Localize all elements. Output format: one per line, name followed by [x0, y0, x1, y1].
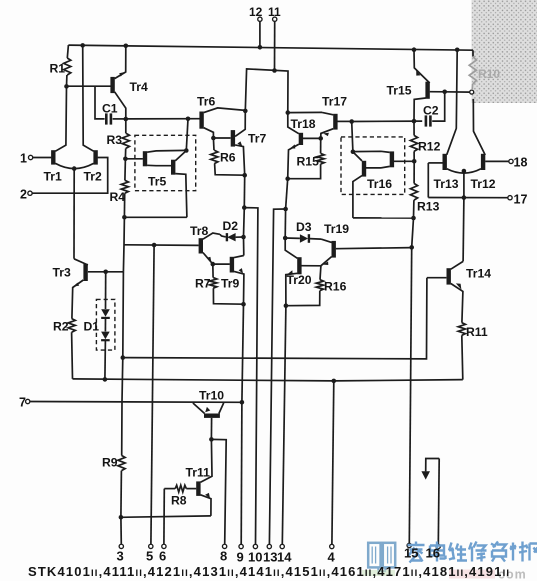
svg-text:Tr4: Tr4 [130, 80, 149, 94]
svg-text:7: 7 [19, 396, 26, 410]
wire pin 15 column [409, 247, 411, 543]
wire pin 9 column [242, 304, 244, 402]
junction pin7 line end [240, 400, 245, 405]
transistor Tr2 [93, 150, 97, 164]
svg-text:3: 3 [117, 549, 124, 564]
transistor Tr4 [110, 77, 114, 93]
svg-text:R7: R7 [195, 277, 211, 291]
transistor Tr19 [332, 241, 336, 258]
pin 7 terminal [26, 399, 30, 403]
pin 3 terminal [119, 544, 123, 548]
svg-text:Tr13: Tr13 [434, 177, 459, 191]
svg-text:R15: R15 [297, 155, 320, 169]
svg-text:C2: C2 [423, 104, 439, 118]
wire R4 bottom to Tr5 emitter [124, 216, 186, 218]
junction output / pin17 line [462, 195, 467, 200]
pin 10 terminal [253, 544, 257, 548]
watermark gray halftone block top-right [472, 0, 537, 103]
resistor R16 [319, 266, 322, 280]
wire V+ top bus [68, 45, 473, 50]
svg-text:14: 14 [277, 550, 292, 565]
transistor Tr1 [51, 150, 55, 164]
pin 8 terminal [222, 544, 226, 548]
svg-text:Tr16: Tr16 [367, 177, 392, 191]
wire left bias column (to pin 3) [123, 217, 124, 271]
watermark text (stylised) [408, 542, 537, 563]
wire pin 12 lead [259, 21, 261, 46]
svg-text:R16: R16 [324, 280, 347, 294]
node R1 bottom / Tr4 base [64, 84, 69, 89]
svg-text:D2: D2 [223, 219, 239, 233]
svg-text:16: 16 [426, 546, 440, 561]
junction Tr7 base [211, 136, 216, 141]
diode D3 [285, 237, 300, 239]
pin 13 terminal [267, 544, 271, 548]
junction pin4 branch [332, 379, 337, 384]
svg-text:R13: R13 [417, 200, 440, 214]
svg-text:STK4101II,4111II,4121II,4131II: STK4101II,4111II,4121II,4131II,4141II,41… [28, 564, 510, 579]
svg-text:6: 6 [159, 549, 166, 564]
junction C2 / Tr15 base [442, 90, 447, 95]
wire Tr10 base to Tr11 collector [201, 439, 213, 482]
pin 2 terminal [28, 191, 32, 195]
svg-text:R8: R8 [171, 494, 187, 508]
wire pin 4 lead [332, 381, 334, 544]
transistor Tr11 [196, 481, 200, 496]
diode D2 [226, 233, 228, 241]
svg-text:Tr6: Tr6 [197, 95, 216, 109]
resistor R4 [121, 180, 128, 193]
pin 12 terminal [258, 17, 262, 21]
svg-text:18: 18 [514, 156, 528, 170]
transistor Tr5 (pair a) [143, 151, 147, 166]
transistor Tr9 [230, 257, 234, 273]
wire pin2 to Tr2 base [32, 158, 108, 194]
svg-text:Tr2: Tr2 [84, 170, 103, 184]
pin 5 terminal [149, 544, 153, 548]
junction bus/Tr4 emitter [124, 44, 129, 49]
wire pin 8 column [211, 439, 226, 544]
wire Tr13 collector rail [447, 50, 458, 155]
svg-text:15: 15 [404, 546, 418, 561]
pin 17 terminal [508, 196, 512, 200]
wire pin 16 hook with arrow [426, 459, 440, 472]
svg-text:4: 4 [328, 550, 336, 565]
svg-text:Tr8: Tr8 [190, 224, 209, 238]
wire pin 17 line [428, 197, 508, 199]
transistor Tr5 (pair b) [171, 160, 175, 175]
junction R15 bottom [285, 176, 290, 181]
junction Tr19 base / pin15 [409, 245, 414, 250]
resistor R2 [68, 319, 75, 333]
transistor Tr13 [443, 154, 447, 170]
svg-text:R3: R3 [107, 133, 123, 147]
wire pin 6 lead [163, 516, 165, 544]
wire Tr11 emitter return [121, 516, 211, 517]
junction C1 line / Tr5 [186, 117, 191, 122]
pin 11 terminal [273, 17, 277, 21]
wire pin1 to Tr1 base [33, 157, 52, 159]
svg-text:R1: R1 [50, 62, 66, 76]
resistor R9 [118, 455, 125, 470]
resistor R6 [212, 138, 215, 150]
resistor R11 [458, 323, 465, 336]
junction D3 [283, 236, 288, 241]
transistor Tr17 [333, 114, 337, 130]
transistor Tr14 [447, 268, 451, 284]
svg-text:R2: R2 [53, 320, 69, 334]
junction Tr18 base [318, 136, 323, 141]
svg-text:17: 17 [514, 193, 528, 207]
transistor Tr7 [231, 130, 235, 147]
svg-text:Tr17: Tr17 [322, 95, 347, 109]
wire rail y357 to Tr14 base [121, 355, 126, 360]
svg-text:12: 12 [249, 5, 263, 19]
pin 14 terminal [280, 544, 284, 548]
resistor R15 [320, 138, 322, 153]
transistor Tr20 [297, 257, 301, 274]
transistor Tr6 [199, 112, 203, 129]
svg-text:Tr10: Tr10 [199, 389, 224, 403]
wire common emitters Tr13 Tr12 [447, 169, 481, 173]
wire pin 5 column [151, 245, 154, 544]
dashed box around Tr5 [135, 135, 196, 190]
resistor R3 [122, 133, 129, 148]
svg-text:Tr15: Tr15 [387, 84, 412, 98]
svg-text:Tr18: Tr18 [291, 117, 316, 131]
svg-text:C1: C1 [102, 102, 118, 116]
wire C1 node to Tr6 base [126, 118, 200, 120]
junction D2 [241, 235, 246, 240]
junction bus / output collector rail [455, 48, 460, 53]
pin 9 terminal [239, 544, 243, 548]
capacitor C2 [352, 120, 423, 122]
junction Tr3 base / D1 [103, 270, 108, 275]
junction R4 bottom [122, 215, 127, 220]
node R3/R4 Tr5 base [123, 157, 128, 162]
svg-text:R4: R4 [110, 190, 126, 204]
junction Tr15 collector / R12 [412, 119, 417, 124]
svg-text:1: 1 [20, 152, 27, 166]
wire pin11 internal rail jog [245, 69, 288, 113]
transistor Tr10 [204, 414, 220, 418]
junction R6 bottom [242, 173, 247, 178]
svg-text:9: 9 [237, 550, 244, 565]
svg-text:R10: R10 [478, 67, 500, 81]
wire pin 14 column [282, 306, 286, 545]
transistor Tr15 [425, 82, 429, 99]
watermark ghost url line [449, 570, 495, 579]
node R12/R13 Tr16 base [412, 159, 417, 164]
dashed box around D1 [96, 299, 115, 350]
resistor R12 [413, 121, 415, 135]
transistor Tr12 [481, 154, 485, 170]
svg-text:8: 8 [220, 549, 227, 564]
terminal to R10 [470, 90, 474, 94]
wire common emitters Tr1 Tr2 [55, 163, 93, 168]
svg-text:11: 11 [268, 5, 281, 19]
resistor R13 [413, 161, 415, 183]
junction Tr17 collector rail [286, 110, 291, 115]
junction R7 bottom [241, 302, 246, 307]
junction Tr16 collectors [351, 149, 356, 154]
transistor Tr16 (pair b) [362, 161, 366, 177]
junction bus / Tr15 emitter [412, 47, 417, 52]
pin 16 terminal [436, 544, 440, 548]
svg-text:D3: D3 [296, 220, 312, 234]
transistor Tr8 [199, 238, 203, 253]
junction pin11 [272, 68, 277, 73]
pin 15 terminal [407, 543, 411, 547]
svg-text:Tr7: Tr7 [248, 132, 267, 146]
junction Tr8 emitter / Tr9 base [211, 262, 216, 267]
junction bus/Tr2 collector [80, 43, 85, 48]
resistor R1 [67, 45, 68, 58]
junction pin5 branch [152, 243, 157, 248]
junction D1 bottom [103, 377, 108, 382]
svg-text:Tr11: Tr11 [186, 466, 211, 480]
svg-text:10: 10 [248, 550, 262, 565]
svg-text:2: 2 [20, 188, 27, 202]
svg-text:R11: R11 [466, 325, 488, 339]
svg-text:Tr20: Tr20 [287, 273, 312, 287]
dashed box around Tr16 [341, 137, 405, 195]
junction Tr10 base / pin8 [209, 437, 214, 442]
svg-text:Tr19: Tr19 [324, 222, 349, 236]
wire center column / pin10 jog [243, 175, 245, 207]
wire bias line to Tr8 base [124, 244, 199, 247]
svg-text:5: 5 [146, 549, 153, 564]
svg-text:D1: D1 [84, 320, 100, 334]
resistor R10 (faint under watermark) [472, 50, 474, 56]
watermark logo book icon [368, 543, 395, 571]
svg-text:Tr5: Tr5 [148, 175, 167, 189]
junction R16 bottom [284, 303, 289, 308]
junction bus pin12 [258, 45, 263, 50]
pin 6 terminal [162, 544, 166, 548]
transistor Tr16 (pair a) [390, 151, 394, 167]
svg-text:Tr9: Tr9 [221, 277, 240, 291]
wire bias rail y380 (R2/D1 bottom to R11) [73, 379, 334, 381]
wire Tr16 emitter to R13 bottom [353, 217, 414, 219]
pin 18 terminal [509, 159, 513, 163]
wire right column / pin13 jog [286, 179, 288, 209]
svg-text:Tr14: Tr14 [466, 267, 491, 281]
capacitor C1 [95, 86, 105, 119]
resistor R8 [175, 485, 186, 492]
junction R13 bottom [411, 216, 416, 221]
transistor Tr3 [83, 264, 87, 281]
resistor R7 [212, 264, 214, 278]
junction Tr17 base / C2 node [349, 119, 354, 124]
pin 1 terminal [28, 155, 32, 159]
junction Tr5 collectors [184, 148, 189, 153]
svg-text:13: 13 [263, 550, 277, 565]
wire Tr4 base [67, 85, 111, 87]
svg-text:Tr3: Tr3 [53, 266, 72, 280]
svg-text:R12: R12 [418, 140, 441, 154]
svg-text:Tr12: Tr12 [471, 177, 496, 191]
pin 4 terminal [330, 544, 334, 548]
node Tr4 collector / C1 / R3 [124, 117, 129, 122]
wire pin 7 line [30, 401, 242, 404]
wire pin 11 lead [274, 21, 276, 70]
svg-text:R9: R9 [102, 456, 118, 470]
svg-text:R6: R6 [220, 151, 236, 165]
svg-text:Tr1: Tr1 [44, 170, 63, 184]
transistor Tr18 [299, 133, 303, 145]
diode D1 (two series diodes) [105, 272, 107, 309]
